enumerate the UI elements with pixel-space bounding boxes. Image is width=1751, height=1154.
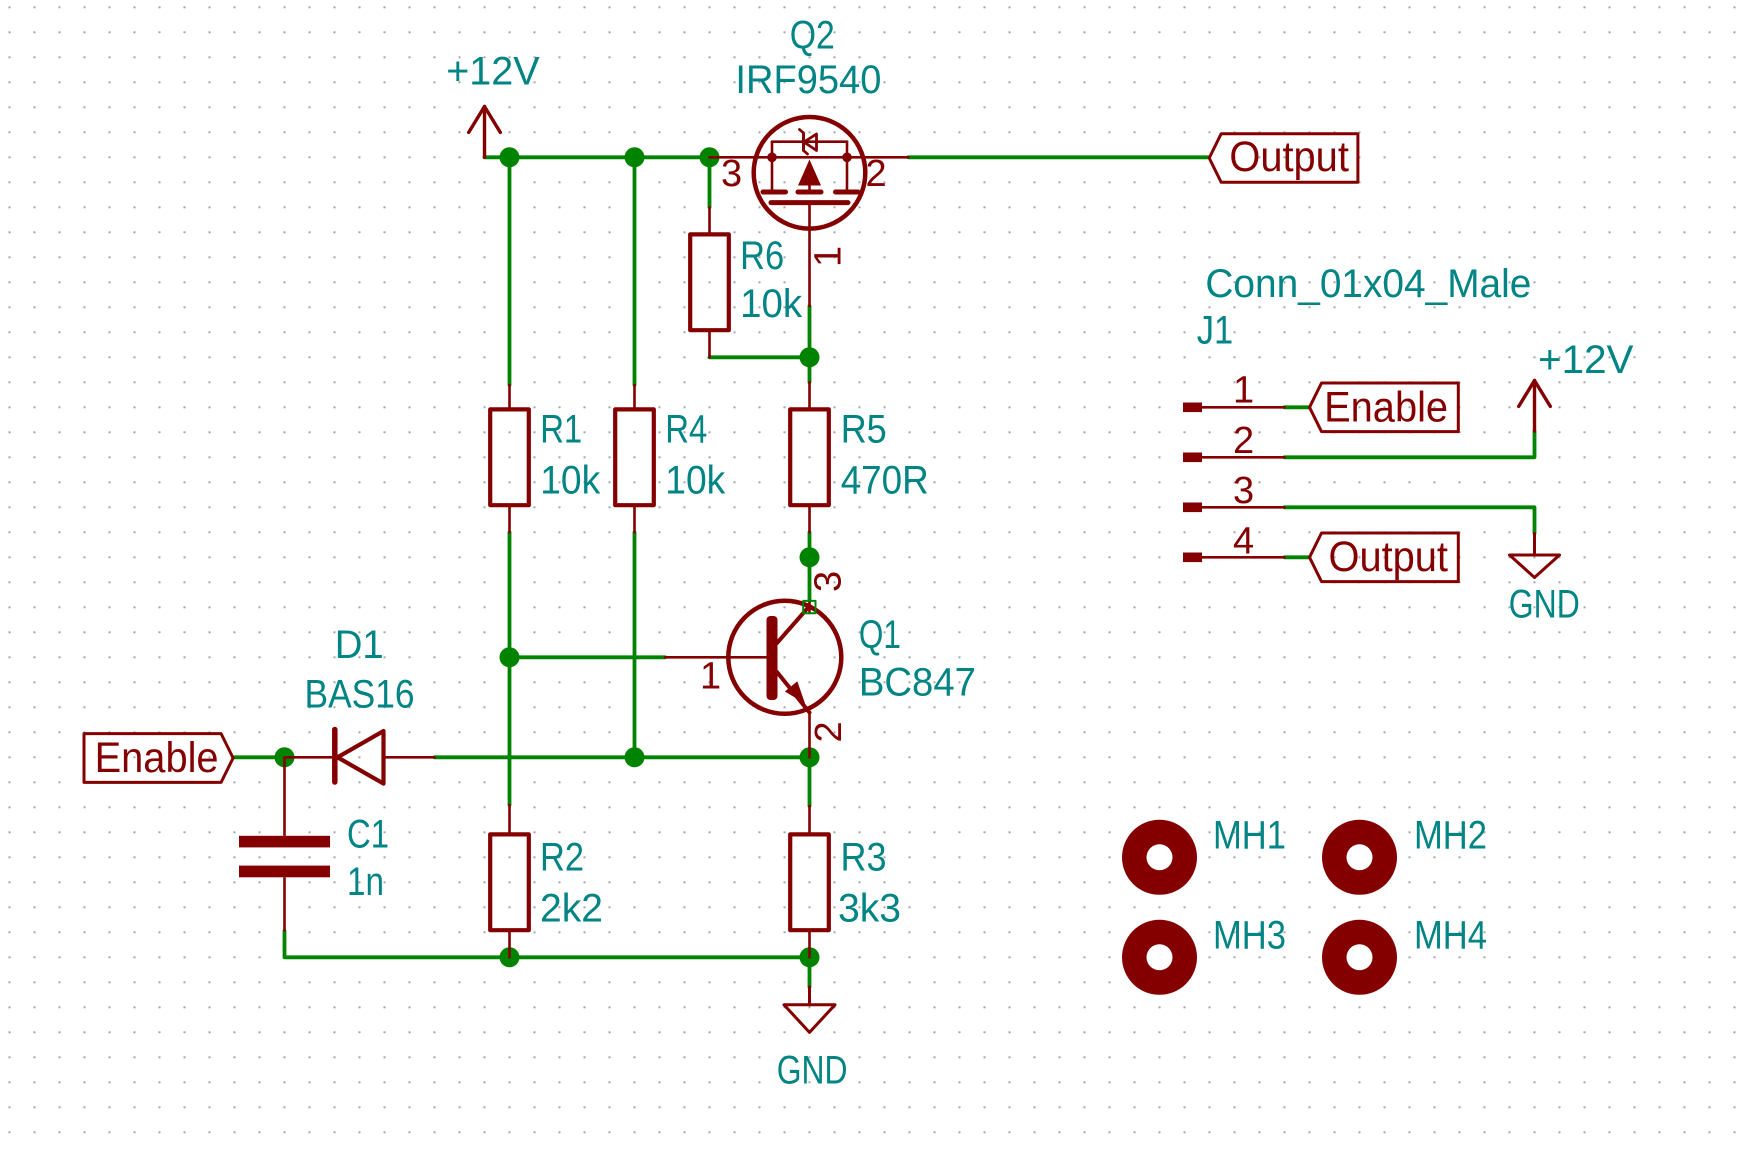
global label Output J1 [1310,533,1459,582]
connector J1 pin 4 [1183,553,1285,563]
svg-text:Conn_01x04_Male: Conn_01x04_Male [1205,262,1531,306]
svg-text:Q1: Q1 [859,613,901,657]
svg-text:10k: 10k [540,459,601,503]
wire base of Q1 [510,655,666,659]
svg-text:BAS16: BAS16 [305,672,415,716]
wire J1 pin3 to GND [1285,507,1535,533]
svg-text:Output: Output [1329,533,1449,581]
svg-text:GND: GND [777,1049,848,1093]
svg-text:2k2: 2k2 [540,887,603,931]
Q2 contact bar drain [836,190,859,195]
connector J1 pin 1 [1183,403,1285,413]
Q1 emitter diagonal [777,672,810,713]
global label Enable J1 [1310,383,1459,432]
wire R6 bottom to gate node [710,355,810,359]
svg-text:1: 1 [700,656,721,698]
C1 top plate [239,836,330,848]
power +12V at J1 [1519,381,1551,432]
svg-text:R1: R1 [540,408,582,452]
Q1 emitter arrow [785,681,805,703]
wire J1 pin1 to Enable label [1285,405,1310,409]
svg-text:C1: C1 [347,812,389,856]
global label Output top [1209,134,1358,183]
Q2 gate bar [771,200,848,205]
Q1 base pin [665,656,767,659]
wire D1 anode to emitter node [435,755,810,759]
wire J1 pin2 to +12V [1285,431,1535,457]
svg-text:R4: R4 [665,408,707,452]
svg-text:1: 1 [1233,369,1254,411]
Q2 left contact vertical [771,142,774,190]
junction R3 bottom GND node [800,947,820,967]
wire emitter node to R3 [808,757,812,806]
svg-text:J1: J1 [1197,309,1233,353]
C1 bottom plate [239,866,330,878]
D1 cathode bar [332,730,338,783]
svg-text:4: 4 [1233,520,1254,562]
svg-text:R3: R3 [841,836,887,880]
svg-text:+12V: +12V [446,50,540,94]
wire R6 top stub [708,157,712,207]
Q2 source-drain pin line [710,156,909,159]
mounting hole MH4 [1322,920,1397,995]
Q2 contact bar source [763,190,786,195]
svg-text:Output: Output [1229,133,1349,181]
transistor Q1 BC847 [665,601,841,758]
wire Q2 drain to Output [908,155,1209,159]
wire R5 bottom to Q1 collector [808,532,812,601]
svg-text:MH1: MH1 [1213,813,1286,857]
svg-text:470R: 470R [841,459,929,503]
mounting hole MH2 [1322,820,1397,895]
Q1 body circle [728,601,841,714]
svg-text:MH4: MH4 [1414,913,1487,957]
power GND bottom [784,987,835,1032]
svg-text:2: 2 [1233,420,1254,462]
svg-text:Enable: Enable [95,734,219,782]
resistor R6 [690,207,729,357]
svg-text:1n: 1n [347,860,384,904]
svg-text:10k: 10k [740,282,803,326]
power GND at J1 [1510,534,1560,578]
svg-text:10k: 10k [665,459,726,503]
Q2 body diode top line [772,140,847,143]
mounting hole MH3 [1122,920,1197,995]
Q2 body diode triangle [804,134,817,151]
wire +12V rail top [485,155,712,159]
junction R5 bottom [800,547,820,567]
Q2 right contact vertical [846,142,849,190]
junction at R4 top [625,147,645,167]
junction gate node [800,347,820,367]
svg-text:3: 3 [1233,470,1254,512]
junction R2 bottom [500,947,520,967]
mounting hole MH1 [1122,820,1197,895]
Q1 collector diagonal [777,606,810,643]
svg-text:Enable: Enable [1324,384,1448,432]
Q2 drain node dot [842,153,852,163]
wire bottom junction to GND [808,957,812,987]
svg-text:IRF9540: IRF9540 [735,58,881,102]
junction R4 bottom [625,747,645,767]
D1 cathode pin [285,756,335,759]
connector J1 pin 2 [1183,453,1285,463]
transistor Q2 IRF9540 [710,117,909,306]
power +12V top left [469,107,501,158]
D1 anode pin [384,756,435,759]
resistor R2 [490,805,529,957]
junction Q1 emitter [800,747,820,767]
svg-text:D1: D1 [335,623,384,667]
svg-text:2: 2 [866,153,887,195]
junction R1 bottom base node [500,647,520,667]
svg-text:R2: R2 [540,836,584,880]
svg-text:2: 2 [808,721,850,742]
Q2 body diode cathode bar [800,130,808,155]
wire R4 column top [633,157,637,385]
wire R1 column top [508,157,512,385]
resistor R4 [615,385,654,532]
C1 top pin [283,757,286,836]
Q1 collector wire-end square [803,601,815,613]
junction enable node at C1 [275,747,295,767]
svg-text:3: 3 [721,153,742,195]
wire J1 pin4 to Output label [1285,555,1310,559]
Q2 contact bar middle [798,190,821,195]
C1 bottom pin [283,877,286,931]
Q1 base bar [767,616,778,700]
svg-text:R6: R6 [740,234,784,278]
svg-text:3k3: 3k3 [838,887,901,931]
Q2 gate pin [808,203,811,306]
svg-text:GND: GND [1509,582,1580,626]
resistor R1 [490,385,529,532]
svg-text:R5: R5 [841,408,887,452]
svg-text:MH2: MH2 [1414,813,1487,857]
svg-text:MH3: MH3 [1213,913,1286,957]
Q2 body circle [754,117,866,229]
svg-text:1: 1 [807,246,849,267]
wire C1 bottom corner [285,931,510,957]
wire gate to R5 [808,306,812,382]
connector J1 pin 3 [1183,503,1285,513]
junction at R6 top [700,147,720,167]
Q2 source node dot [767,153,777,163]
D1 triangle [338,731,384,784]
wire enable label to D1 [233,755,284,759]
svg-text:Q2: Q2 [790,14,835,58]
wire R4 bottom to enable row [633,532,637,757]
resistor R3 [790,806,829,957]
wire bottom row [510,955,810,959]
Q1 collector pin stub [808,601,811,613]
capacitor C1 [239,757,330,931]
resistor R5 [790,382,829,532]
wire R1 bottom to R2 top [508,532,512,805]
Q1 emitter pin [808,714,811,758]
svg-text:BC847: BC847 [859,661,976,705]
global label Enable left [84,734,233,783]
svg-text:3: 3 [808,571,850,592]
diode D1 BAS16 [285,730,435,784]
svg-text:+12V: +12V [1538,338,1634,382]
junction at +12V/R1 [500,147,520,167]
Q2 substrate arrow [798,160,821,186]
